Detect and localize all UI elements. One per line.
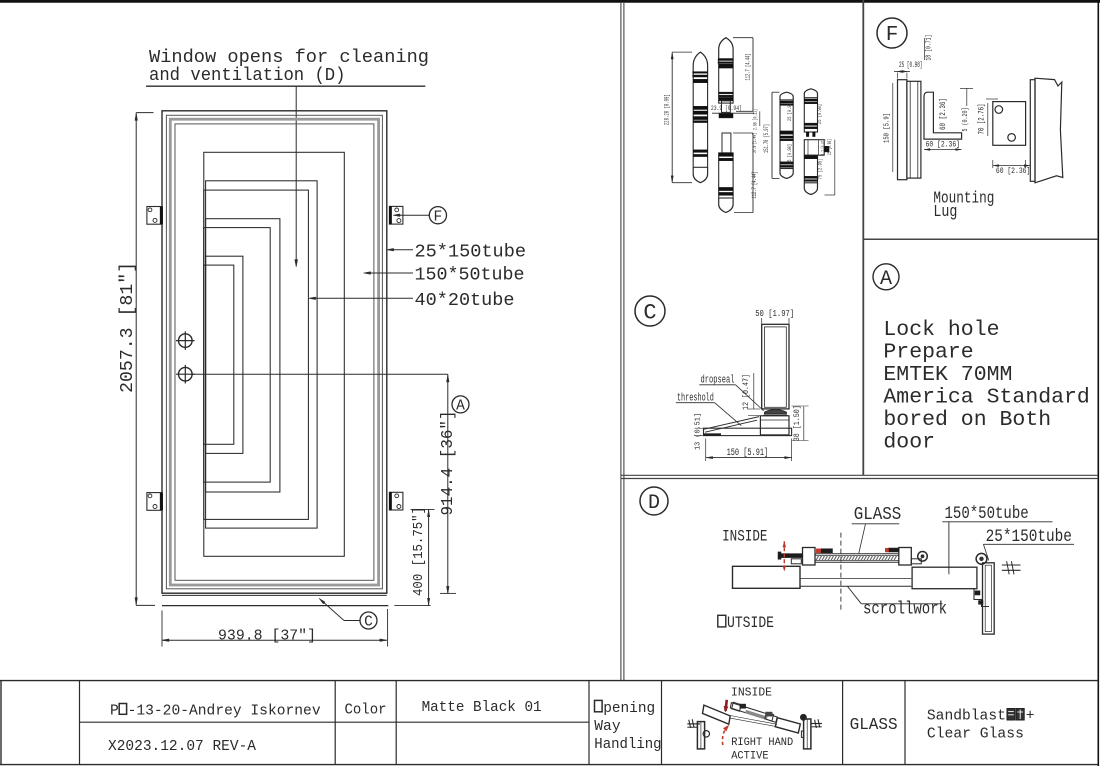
- svg-text:150*50tube: 150*50tube: [945, 504, 1029, 523]
- svg-text:Matte Black 01: Matte Black 01: [422, 700, 542, 716]
- svg-text:Clear Glass: Clear Glass: [927, 727, 1024, 743]
- svg-text:5 (0.20]: 5 (0.20]: [962, 108, 970, 132]
- svg-text:25*150tube: 25*150tube: [986, 527, 1072, 546]
- svg-text:37.8 [1.49]: 37.8 [1.49]: [751, 133, 758, 153]
- svg-text:939.8 [37″]: 939.8 [37″]: [218, 628, 316, 644]
- svg-text:38 [1.50]: 38 [1.50]: [792, 405, 802, 441]
- svg-text:12 [0.47]: 12 [0.47]: [741, 374, 751, 410]
- svg-text:150 [5.9]: 150 [5.9]: [884, 113, 892, 143]
- svg-text:P: P: [110, 703, 119, 719]
- svg-text:75 [2.95]: 75 [2.95]: [817, 159, 824, 180]
- svg-text:F: F: [434, 209, 443, 225]
- svg-text:Sandblast: Sandblast: [927, 709, 1006, 725]
- svg-text:228.28 [8.99]: 228.28 [8.99]: [664, 94, 671, 125]
- svg-text:50 [1.97]: 50 [1.97]: [755, 309, 794, 319]
- svg-text:Color: Color: [345, 703, 387, 719]
- svg-text:25 [0.98]: 25 [0.98]: [816, 104, 823, 124]
- svg-text:60 [2.36]: 60 [2.36]: [996, 167, 1030, 176]
- svg-text:America Standard: America Standard: [883, 385, 1089, 409]
- svg-text:60 [2.36]: 60 [2.36]: [940, 98, 948, 130]
- svg-text:UTSIDE: UTSIDE: [727, 615, 774, 632]
- svg-text:X2023.12.07 REV-A: X2023.12.07 REV-A: [108, 739, 256, 755]
- svg-text:GLASS: GLASS: [850, 716, 898, 734]
- svg-text:70 [2.76]: 70 [2.76]: [979, 104, 987, 135]
- svg-text:pening: pening: [603, 701, 655, 717]
- svg-text:25 [0.98]: 25 [0.98]: [899, 61, 923, 70]
- svg-text:door: door: [883, 430, 935, 454]
- svg-text:bored on Both: bored on Both: [883, 408, 1051, 432]
- svg-text:25 [0.98]: 25 [0.98]: [786, 144, 793, 164]
- svg-text:C: C: [364, 615, 373, 631]
- svg-text:RIGHT HAND: RIGHT HAND: [731, 737, 793, 749]
- svg-text:Lug: Lug: [933, 202, 957, 221]
- svg-text:Handling: Handling: [594, 737, 661, 753]
- svg-text:25 [0.98]: 25 [0.98]: [827, 139, 833, 155]
- svg-text:112.7 [4.44]: 112.7 [4.44]: [744, 54, 751, 81]
- svg-text:A: A: [456, 399, 465, 415]
- svg-text:INSIDE: INSIDE: [731, 685, 772, 699]
- svg-text:13 (0.51]: 13 (0.51]: [695, 413, 703, 450]
- svg-text:D: D: [648, 492, 660, 515]
- svg-text:25 [0.98]: 25 [0.98]: [786, 101, 793, 121]
- svg-text:Prepare: Prepare: [883, 340, 973, 364]
- svg-text:400 [15.75″]: 400 [15.75″]: [412, 507, 427, 596]
- svg-text:151.78 [5.97]: 151.78 [5.97]: [763, 124, 770, 153]
- svg-text:2.88 [0.11]: 2.88 [0.11]: [752, 109, 759, 130]
- svg-text:Way: Way: [594, 719, 621, 735]
- svg-text:25*150tube: 25*150tube: [415, 242, 527, 262]
- svg-text:INSIDE: INSIDE: [722, 529, 767, 546]
- svg-text:scrollwork: scrollwork: [863, 599, 947, 619]
- svg-text:914.4 [36″]: 914.4 [36″]: [439, 411, 458, 516]
- svg-text:2057.3 [81″]: 2057.3 [81″]: [118, 262, 138, 393]
- svg-text:-13-20-Andrey Iskornev: -13-20-Andrey Iskornev: [128, 703, 321, 719]
- svg-text:23.9 [0.94]: 23.9 [0.94]: [711, 105, 742, 112]
- svg-text:40*20tube: 40*20tube: [415, 291, 515, 311]
- svg-text:+: +: [1026, 709, 1035, 725]
- svg-text:ACTIVE: ACTIVE: [731, 750, 769, 762]
- svg-text:112.7 [4.44]: 112.7 [4.44]: [751, 172, 758, 199]
- svg-text:and ventilation (D): and ventilation (D): [149, 64, 346, 86]
- svg-text:Lock hole: Lock hole: [883, 318, 999, 342]
- svg-text:GLASS: GLASS: [854, 505, 902, 525]
- svg-text:1.7 [0.07]: 1.7 [0.07]: [821, 139, 827, 155]
- svg-text:A: A: [880, 268, 892, 291]
- svg-text:18 [0.71]: 18 [0.71]: [926, 35, 934, 61]
- svg-text:C: C: [643, 301, 656, 326]
- svg-text:F: F: [886, 24, 899, 47]
- svg-text:EMTEK 70MM: EMTEK 70MM: [883, 363, 1012, 387]
- svg-text:150*50tube: 150*50tube: [415, 266, 525, 286]
- svg-text:60 [2.36]: 60 [2.36]: [926, 141, 960, 150]
